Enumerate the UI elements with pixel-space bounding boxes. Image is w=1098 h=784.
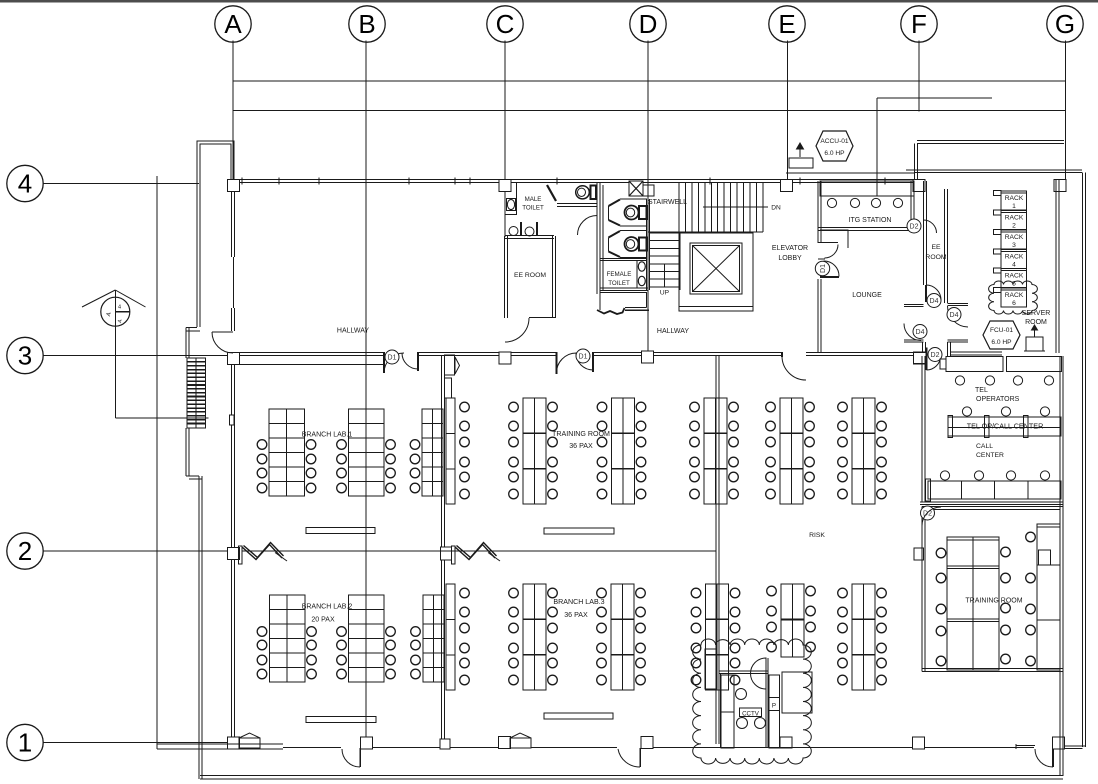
gridline 2 horizontal [43, 550, 234, 552]
svg-text:RACK: RACK [1005, 254, 1024, 261]
top wall A-F [234, 179, 919, 181]
left exterior wall upper [196, 180, 198, 327]
ACCU-01 hexagon [816, 131, 853, 161]
top-left protrusion walls [197, 141, 234, 180]
male toilet wc [591, 186, 597, 200]
double door D1 to training room [556, 352, 558, 374]
svg-text:D2: D2 [931, 352, 940, 359]
svg-text:E: E [778, 9, 795, 39]
wall training/RISK [715, 356, 717, 744]
vestibule right arm walls [948, 303, 969, 305]
elevator car [690, 243, 742, 294]
door D2 training room [921, 506, 935, 520]
chairs [257, 440, 267, 450]
risk desk cluster 1 [780, 398, 803, 504]
grid bubble 4 [7, 165, 43, 201]
vanity wall [600, 258, 647, 260]
server corridor wall [950, 351, 1002, 353]
svg-text:TOILET: TOILET [608, 280, 630, 287]
chairs [1026, 532, 1036, 542]
column F/1 [913, 737, 925, 749]
column A/3 [228, 353, 240, 365]
CCTV cabinet west [705, 649, 717, 689]
svg-text:TOILET: TOILET [522, 205, 544, 212]
sinks male [509, 227, 518, 236]
column B/1 [361, 737, 373, 749]
svg-text:HALLWAY: HALLWAY [337, 328, 369, 335]
door D4 right arm [948, 306, 969, 327]
right exterior wall bottom jog [1063, 745, 1086, 747]
tel operators chairs [955, 376, 964, 385]
column F/4 [913, 180, 925, 192]
door D4 upper into EE room [925, 285, 927, 302]
svg-text:FEMALE: FEMALE [607, 271, 632, 278]
svg-text:D1: D1 [820, 264, 827, 273]
column D/3 [642, 351, 654, 363]
svg-text:F: F [911, 9, 927, 39]
branch lab 1 desk cluster 2 [349, 409, 384, 496]
svg-text:ACCU-01: ACCU-01 [820, 138, 849, 145]
right TR desk cluster east [1037, 524, 1060, 670]
chairs [410, 440, 420, 450]
rack 2 [1001, 211, 1027, 230]
lounge entry jog [820, 230, 848, 248]
chairs [411, 627, 421, 637]
gridline 1 horizontal [43, 742, 229, 744]
branch lab 2 desk cluster 3 partial [423, 595, 444, 682]
vestibule left arm walls [904, 304, 924, 306]
branch lab 3 cluster 2 [523, 584, 546, 690]
risk south cluster 1 [706, 584, 729, 690]
CCTV desk 1 [721, 675, 734, 748]
chairs [257, 627, 267, 637]
svg-text:TRAINING ROOM: TRAINING ROOM [965, 598, 1022, 605]
CCTV desk east [782, 672, 812, 713]
tel room south wall [920, 501, 1063, 503]
grid bubble A [215, 6, 251, 42]
svg-text:C: C [496, 9, 515, 39]
svg-text:B: B [358, 9, 375, 39]
right exterior wall [1082, 173, 1084, 748]
stall 2 wc [639, 238, 647, 251]
chairs [691, 588, 701, 598]
door D1 lobby/lounge [818, 242, 838, 244]
door bottom lab3 [639, 748, 641, 767]
pilaster at break 2 [452, 546, 456, 564]
svg-text:UP: UP [660, 290, 670, 297]
svg-text:LOBBY: LOBBY [778, 255, 802, 262]
svg-text:G: G [1055, 9, 1075, 39]
right TR desk cluster main [947, 537, 999, 670]
risk room north wall [716, 352, 782, 354]
chairs [767, 586, 777, 596]
vestibule lower walls [922, 342, 924, 353]
chairs [838, 588, 848, 598]
svg-text:EE ROOM: EE ROOM [514, 272, 546, 279]
svg-text:BRANCH LAB.2: BRANCH LAB.2 [302, 604, 353, 611]
toilet stall 1 [620, 198, 647, 200]
svg-text:CALL: CALL [976, 443, 993, 450]
svg-text:4: 4 [118, 305, 121, 311]
right wing top wall [917, 140, 1064, 142]
gridline E vertical [787, 41, 789, 183]
branch lab 2 desk cluster 2 [349, 595, 384, 682]
break symbol 1 [242, 545, 282, 560]
arrow base box [789, 158, 813, 168]
door gap in A wall [230, 415, 235, 425]
female toilet walls [599, 185, 601, 290]
svg-text:RACK: RACK [1005, 273, 1024, 280]
column A/4 [228, 180, 240, 192]
gridline C vertical [504, 41, 506, 183]
bottom wall [372, 747, 499, 749]
revision cloud around CCTV [693, 639, 812, 764]
teacher desk training room [544, 528, 614, 534]
shaft box at D [629, 181, 643, 196]
supply arrow [799, 144, 801, 157]
teacher desk lab3 [544, 713, 613, 719]
hallway south wall mid [419, 352, 556, 354]
svg-text:RACK: RACK [1005, 234, 1024, 241]
grid bubble 2 [7, 533, 43, 569]
svg-text:TEL: TEL [975, 387, 988, 394]
chairs [597, 402, 607, 412]
server box with arrow [1026, 337, 1043, 351]
stair flight boundary [648, 231, 763, 233]
lab divider wall with break symbols [242, 550, 716, 552]
column 443/2 [441, 547, 452, 560]
exterior stairwell hatch [187, 358, 206, 428]
svg-text:ROOM: ROOM [1025, 319, 1047, 326]
svg-text:RACK: RACK [1005, 215, 1024, 222]
door bottom right [1016, 745, 1035, 747]
svg-text:CENTER: CENTER [976, 452, 1004, 459]
break symbol 2 [455, 545, 495, 560]
svg-text:4: 4 [1012, 262, 1016, 269]
risk south cluster 3 [852, 584, 875, 690]
chairs [766, 402, 776, 412]
stair treads lower flight [649, 232, 680, 234]
gridline 4 horizontal [43, 183, 200, 185]
door D2 ITG [907, 219, 921, 233]
chairs [337, 627, 347, 637]
revision cloud around rack 6 [989, 281, 1038, 314]
lobby door arc [578, 216, 598, 236]
svg-text:HALLWAY: HALLWAY [657, 328, 689, 335]
CCTV small box [780, 737, 792, 748]
EE room 2 walls [923, 181, 925, 285]
svg-text:2: 2 [18, 536, 32, 566]
chairs [690, 402, 700, 412]
training room partial desk west [446, 398, 455, 504]
svg-text:A: A [224, 9, 242, 39]
top toolbar bar [0, 0, 1098, 3]
svg-text:EE: EE [931, 244, 941, 251]
svg-text:D1: D1 [388, 355, 397, 362]
door to risk room [782, 356, 806, 380]
grid bubble 3 [7, 337, 43, 373]
gridline F vertical [918, 41, 920, 112]
svg-text:BRANCH LAB.3: BRANCH LAB.3 [553, 598, 604, 606]
svg-text:STAIRWELL: STAIRWELL [648, 199, 687, 206]
wall fixture [914, 548, 924, 560]
svg-text:2: 2 [1012, 223, 1016, 230]
svg-text:4: 4 [18, 169, 32, 199]
mid chairs [962, 407, 971, 416]
branch lab 2 desk cluster 1 [270, 595, 305, 682]
svg-text:D4: D4 [916, 329, 925, 336]
branch lab 3 cluster 3 [611, 584, 634, 690]
west wall of labs (A wall lower) [231, 364, 233, 742]
bottom exterior wall [200, 775, 1063, 777]
column A/1 [228, 737, 240, 749]
column C/4 [499, 180, 511, 192]
column D/1 [641, 737, 653, 749]
branch lab 3 partial desk west [446, 584, 455, 690]
section cut line [114, 290, 116, 418]
svg-text:36 PAX: 36 PAX [569, 442, 593, 450]
CCTV label [740, 708, 762, 717]
urinal [507, 199, 516, 211]
svg-text:TEL OP/CALL CENTER: TEL OP/CALL CENTER [967, 422, 1044, 431]
svg-text:36 PAX: 36 PAX [564, 611, 588, 619]
grid bubble D [630, 6, 666, 42]
branch lab 1 desk cluster 3 partial [422, 409, 443, 496]
column G/1 [1053, 737, 1065, 749]
svg-text:D1: D1 [579, 354, 588, 361]
gridline D vertical [647, 41, 649, 354]
svg-text:TRAINING ROOM: TRAINING ROOM [552, 430, 610, 438]
toilet lobby stub wall with break line [600, 292, 647, 294]
male toilet walls [596, 182, 598, 294]
column C/3 [499, 352, 511, 364]
left exterior wall lower [198, 476, 200, 779]
chairs [460, 588, 470, 598]
A wall upper section [231, 191, 233, 257]
CCTV room walls [720, 673, 722, 747]
west interior wall labs/training [441, 356, 443, 744]
svg-text:3: 3 [1012, 242, 1016, 249]
EE room 1 [505, 235, 554, 237]
bottom wall west segment [157, 743, 283, 745]
teacher desk lab2 [306, 717, 376, 723]
svg-text:ELEVATOR: ELEVATOR [772, 245, 808, 252]
svg-text:D4: D4 [950, 312, 959, 319]
chairs [509, 402, 519, 412]
elevator shaft [679, 233, 753, 311]
chairs [936, 548, 946, 558]
chairs [337, 440, 347, 450]
double door D1 to branch lab 1 [383, 352, 385, 373]
svg-text:20 PAX: 20 PAX [311, 617, 335, 624]
right interior wall [1055, 179, 1057, 353]
female toilet south wall [600, 287, 648, 289]
svg-text:DN: DN [771, 205, 781, 212]
column E/4 [781, 180, 793, 192]
svg-text:MALE: MALE [525, 196, 542, 203]
stall 1 wc [639, 206, 647, 219]
chairs [597, 588, 607, 598]
column at vestibule / gridline 3 [914, 352, 927, 364]
svg-text:D2: D2 [910, 224, 919, 231]
svg-text:CCTV: CCTV [742, 710, 760, 717]
svg-text:BRANCH LAB.1: BRANCH LAB.1 [302, 432, 353, 439]
toilet stall 2 [620, 230, 647, 232]
grid bubble G [1047, 6, 1083, 42]
left wall jog at stairs [186, 327, 197, 329]
column right of shaft box [643, 185, 654, 196]
bottom wall mid [531, 747, 617, 749]
left wall jog lower [186, 475, 199, 477]
rack 4 [1001, 250, 1027, 269]
gridline G vertical [1065, 41, 1067, 180]
svg-text:LOUNGE: LOUNGE [852, 292, 882, 299]
svg-text:RACK: RACK [1005, 292, 1024, 299]
stairwell west boundary [647, 183, 649, 233]
left exterior wall mid [185, 428, 187, 476]
chairs [509, 588, 519, 598]
svg-text:SERVER: SERVER [1022, 310, 1051, 317]
CCTV chairs [736, 689, 747, 700]
grid bubble E [769, 6, 805, 42]
rack 1 [1001, 191, 1027, 210]
svg-text:3: 3 [18, 341, 32, 371]
svg-text:6.0 HP: 6.0 HP [991, 339, 1012, 346]
gridline 3 horizontal [43, 355, 241, 357]
fixture panel on wall top [445, 355, 455, 375]
top datum line 1 [233, 80, 1066, 82]
svg-text:RACK: RACK [1005, 195, 1024, 202]
svg-text:P: P [772, 703, 776, 710]
svg-text:ROOM: ROOM [925, 254, 946, 261]
male toilet door leaf [547, 185, 556, 201]
grid bubble B [349, 6, 385, 42]
female sinks [638, 262, 645, 271]
ITG station room [817, 181, 819, 243]
svg-text:D: D [639, 9, 658, 39]
stair treads upper flight [678, 183, 680, 233]
svg-text:1: 1 [1012, 203, 1016, 210]
bottom wall east [653, 747, 913, 749]
svg-text:FCU-01: FCU-01 [990, 327, 1013, 334]
svg-text:ITG STATION: ITG STATION [849, 217, 892, 224]
rack 3 [1001, 230, 1027, 249]
door D2 to tel operators [926, 348, 928, 371]
wc niche wall [557, 203, 597, 205]
chairs [460, 402, 470, 412]
gridline A vertical [232, 41, 234, 180]
F jog line [877, 97, 992, 99]
call center desk bottom [928, 481, 1061, 499]
risk desk cluster 2 [852, 398, 875, 504]
door D4 left arm [904, 324, 921, 341]
FCU-01 hexagon [983, 321, 1020, 349]
training room cluster 3 [612, 398, 635, 504]
right training room walls [922, 506, 1063, 508]
top datum line 2 [233, 110, 1066, 112]
call center chairs [940, 471, 949, 480]
door at hallway NW [212, 331, 233, 333]
tel op call center desk [948, 417, 1061, 436]
svg-text:1: 1 [18, 728, 32, 758]
CCTV door half circle [751, 658, 767, 689]
ITG chairs [827, 198, 836, 207]
pilaster at break 1 [239, 546, 243, 564]
tel operators desks top [946, 357, 1003, 372]
call center west wall [921, 356, 923, 502]
grid bubble 1 [7, 724, 43, 760]
top wall window ticks [241, 178, 243, 185]
hallway south wall east part [593, 352, 716, 354]
teacher desk lab1 [306, 528, 375, 534]
DN leader line [703, 206, 768, 208]
training room cluster 4 [704, 398, 727, 504]
svg-text:RISK: RISK [809, 532, 825, 539]
training room cluster 2 [523, 398, 546, 504]
column G/4 [1054, 180, 1066, 192]
vent symbol west [239, 733, 260, 748]
bottom wall single segments [283, 747, 341, 749]
CCTV desk P [769, 675, 780, 748]
svg-text:6: 6 [1012, 300, 1016, 307]
left site boundary line [156, 176, 158, 749]
grid bubble C [487, 6, 523, 42]
risk north wall east [806, 352, 923, 354]
svg-text:D4: D4 [930, 298, 939, 305]
door bottom lab2 [359, 748, 361, 767]
branch lab 1 desk cluster 1 [269, 409, 304, 496]
chairs [838, 402, 848, 412]
column A/2 [228, 548, 240, 560]
svg-text:6.0 HP: 6.0 HP [824, 150, 845, 157]
rack 5 [1001, 269, 1027, 288]
grid bubble F [901, 6, 937, 42]
hallway south wall west part [238, 352, 385, 354]
column at lab wall / gridline 1 [440, 739, 450, 749]
gridline B vertical [365, 41, 367, 745]
rack 6 [1001, 288, 1027, 307]
elevator south wall [679, 306, 753, 308]
risk south cluster 2 (cut by cloud) [781, 584, 804, 657]
column C/1 and vent [499, 737, 511, 749]
svg-text:OPERATORS: OPERATORS [976, 396, 1020, 403]
section marker 4/A [101, 297, 130, 326]
right wing inner wall [906, 169, 1082, 171]
ACCU terrace edge line [786, 172, 914, 174]
